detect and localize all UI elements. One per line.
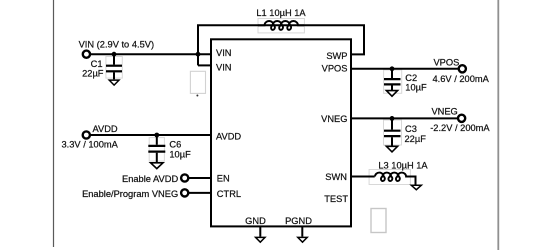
svg-text:Enable/Program VNEG: Enable/Program VNEG xyxy=(82,189,178,199)
svg-text:22µF: 22µF xyxy=(405,134,427,144)
svg-text:L1 10µH 1A: L1 10µH 1A xyxy=(256,8,306,18)
svg-text:C1: C1 xyxy=(91,59,103,69)
svg-text:VIN: VIN xyxy=(216,62,232,72)
svg-text:10µF: 10µF xyxy=(169,150,191,160)
svg-text:VPOS: VPOS xyxy=(322,64,348,74)
svg-text:VIN: VIN xyxy=(216,48,232,58)
svg-text:Enable AVDD: Enable AVDD xyxy=(122,174,178,184)
svg-text:AVDD: AVDD xyxy=(216,131,241,141)
svg-text:VNEG: VNEG xyxy=(321,114,347,124)
svg-text:-2.2V / 200mA: -2.2V / 200mA xyxy=(430,123,490,133)
svg-text:10µF: 10µF xyxy=(405,83,427,93)
svg-text:EN: EN xyxy=(217,174,230,184)
svg-text:4.6V / 200mA: 4.6V / 200mA xyxy=(433,74,490,84)
svg-text:22µF: 22µF xyxy=(82,69,104,79)
svg-text:C6: C6 xyxy=(169,140,181,150)
svg-text:C3: C3 xyxy=(405,124,417,134)
svg-text:VPOS: VPOS xyxy=(433,58,459,68)
svg-text:VNEG: VNEG xyxy=(431,106,457,116)
svg-text:VIN (2.9V to 4.5V): VIN (2.9V to 4.5V) xyxy=(79,40,154,50)
svg-text:PGND: PGND xyxy=(285,216,312,226)
svg-text:SWP: SWP xyxy=(326,51,347,61)
svg-text:AVDD: AVDD xyxy=(93,124,118,134)
svg-text:L3 10µH 1A: L3 10µH 1A xyxy=(378,161,428,171)
svg-text:TEST: TEST xyxy=(324,194,348,204)
svg-text:C2: C2 xyxy=(405,73,417,83)
svg-text:CTRL: CTRL xyxy=(217,189,241,199)
svg-text:GND: GND xyxy=(245,216,266,226)
svg-text:3.3V / 100mA: 3.3V / 100mA xyxy=(62,140,119,150)
svg-text:SWN: SWN xyxy=(325,172,347,182)
